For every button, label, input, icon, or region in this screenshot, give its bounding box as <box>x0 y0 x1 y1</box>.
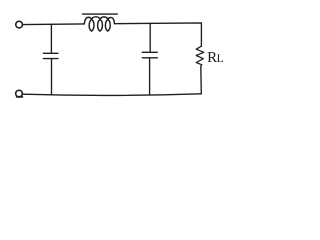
svg-text:RL: RL <box>207 50 224 66</box>
